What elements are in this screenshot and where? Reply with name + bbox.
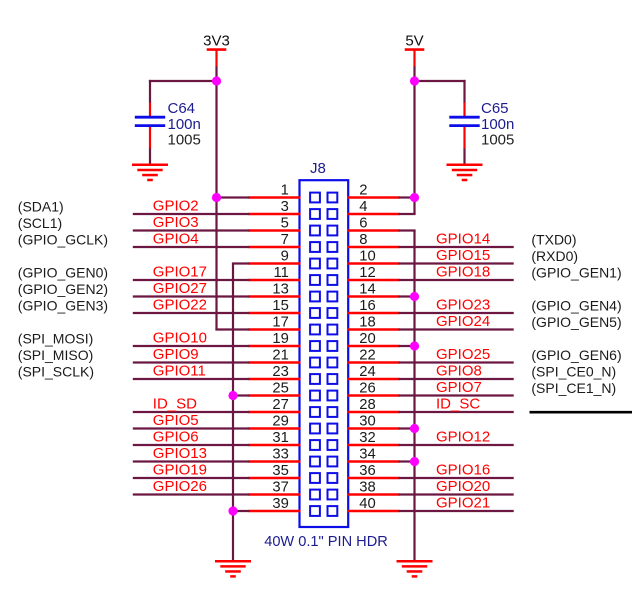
- pin 8 of J8: [348, 246, 400, 248]
- pin 5 of J8: [249, 229, 301, 231]
- wire rail to pin 14: [399, 295, 416, 297]
- wire 5V rail vertical to pin4 row: [413, 66, 415, 214]
- svg-text:29: 29: [272, 413, 288, 429]
- pin 28 of J8: [348, 411, 400, 413]
- svg-text:1005: 1005: [168, 132, 201, 149]
- wire net GPIO9 to pin 21: [133, 361, 250, 363]
- svg-text:(GPIO_GEN4): (GPIO_GEN4): [531, 297, 621, 313]
- svg-text:GPIO21: GPIO21: [436, 495, 490, 512]
- svg-text:(SPI_SCLK): (SPI_SCLK): [18, 363, 94, 379]
- junction left GND rail / pin 39: [228, 506, 237, 515]
- wire rail to pin 34: [399, 460, 416, 462]
- pin 32 of J8: [348, 444, 400, 446]
- junction right GND rail / pin 30: [410, 424, 419, 433]
- power symbol 5V: [405, 50, 425, 67]
- pin 10 of J8: [348, 262, 400, 264]
- wire 3V3 branch to C64: [149, 80, 217, 82]
- ground below C65: [447, 165, 483, 180]
- svg-text:20: 20: [359, 331, 375, 347]
- wire net GPIO10 to pin 19: [133, 345, 250, 347]
- power symbol 3V3: [207, 50, 227, 67]
- svg-text:11: 11: [274, 265, 289, 281]
- pin 33 of J8: [249, 460, 301, 462]
- svg-text:10: 10: [359, 248, 375, 264]
- svg-text:4: 4: [359, 199, 367, 215]
- wire 3V3 rail to pin 1: [215, 196, 249, 198]
- wire net GPIO15 to pin 10: [399, 262, 514, 264]
- wire net GPIO5 to pin 29: [133, 427, 250, 429]
- pin 16 of J8: [348, 312, 400, 314]
- svg-text:34: 34: [359, 446, 375, 462]
- svg-text:(GPIO_GEN3): (GPIO_GEN3): [18, 297, 108, 313]
- wire right GND rail (pins 6,14,20,30,34): [413, 231, 415, 561]
- wire net GPIO12 to pin 32: [399, 444, 514, 446]
- wire net GPIO13 to pin 33: [133, 460, 250, 462]
- wire net GPIO4 to pin 7: [133, 246, 250, 248]
- junction right GND rail / pin 14: [410, 292, 419, 301]
- svg-text:21: 21: [272, 347, 288, 363]
- wire C65 top lead: [463, 80, 465, 103]
- svg-text:23: 23: [272, 364, 288, 380]
- wire net GPIO16 to pin 36: [399, 477, 514, 479]
- wire net GPIO20 to pin 38: [399, 493, 514, 495]
- svg-text:GPIO7: GPIO7: [436, 379, 482, 396]
- svg-text:26: 26: [359, 380, 375, 396]
- wire net GPIO21 to pin 40: [399, 510, 514, 512]
- wire net GPIO25 to pin 22: [399, 361, 514, 363]
- svg-text:GPIO16: GPIO16: [436, 462, 490, 479]
- ground right of J8 bottom: [397, 561, 433, 576]
- pin 12 of J8: [348, 279, 400, 281]
- svg-text:24: 24: [359, 364, 375, 380]
- svg-text:GPIO11: GPIO11: [153, 363, 206, 380]
- svg-text:(GPIO_GCLK): (GPIO_GCLK): [18, 231, 108, 247]
- pin 24 of J8: [348, 378, 400, 380]
- pin 14 of J8: [348, 295, 400, 297]
- wire net GPIO19 to pin 35: [133, 477, 250, 479]
- svg-text:C65: C65: [481, 100, 509, 117]
- svg-text:15: 15: [272, 298, 288, 314]
- svg-text:GPIO27: GPIO27: [153, 280, 207, 297]
- svg-text:GPIO19: GPIO19: [153, 462, 207, 479]
- svg-text:(GPIO_GEN1): (GPIO_GEN1): [531, 264, 621, 280]
- svg-text:(RXD0): (RXD0): [531, 248, 578, 264]
- junction left GND rail / pin 25: [228, 391, 237, 400]
- pin 6 of J8: [348, 229, 400, 231]
- pin 39 of J8: [249, 510, 301, 512]
- junction 3V3 rail / pin 1: [212, 193, 221, 202]
- junction 5V rail / pin 2: [410, 193, 419, 202]
- svg-text:GPIO13: GPIO13: [153, 445, 207, 462]
- ground left of J8 bottom: [215, 561, 251, 576]
- svg-text:GPIO20: GPIO20: [436, 478, 490, 495]
- svg-text:GPIO12: GPIO12: [436, 429, 490, 446]
- wire rail to pin 6: [399, 229, 416, 231]
- capacitor C65: [449, 103, 479, 150]
- wire C64 bottom lead: [149, 149, 151, 165]
- svg-text:36: 36: [359, 463, 375, 479]
- J8 contact squares (2x20): [310, 193, 337, 516]
- junction right GND rail / pin 20: [410, 341, 419, 350]
- svg-text:(SPI_MOSI): (SPI_MOSI): [18, 330, 93, 346]
- svg-text:39: 39: [272, 496, 288, 512]
- wire net GPIO24 to pin 18: [399, 328, 514, 330]
- svg-text:(GPIO_GEN5): (GPIO_GEN5): [531, 314, 621, 330]
- pin 26 of J8: [348, 394, 400, 396]
- pin 34 of J8: [348, 460, 400, 462]
- pin 11 of J8: [249, 279, 301, 281]
- wire rail to pin 4: [399, 213, 416, 215]
- ground below C64: [132, 165, 168, 180]
- wire GND rail to pin 39: [232, 510, 250, 512]
- svg-text:6: 6: [359, 215, 367, 231]
- pin 35 of J8: [249, 477, 301, 479]
- svg-text:(SPI_CE1_N): (SPI_CE1_N): [531, 380, 616, 396]
- svg-text:3V3: 3V3: [203, 32, 230, 49]
- pin 7 of J8: [249, 246, 301, 248]
- wire net ID_SC to pin 28: [399, 411, 514, 413]
- svg-text:ID_SC: ID_SC: [436, 396, 480, 413]
- pin 38 of J8: [348, 493, 400, 495]
- svg-text:1: 1: [281, 182, 289, 198]
- svg-text:GPIO15: GPIO15: [436, 247, 490, 264]
- svg-text:33: 33: [272, 446, 288, 462]
- pin 18 of J8: [348, 328, 400, 330]
- wire net GPIO3 to pin 5: [133, 229, 250, 231]
- wire black net stub at sheet edge (row of pin 28): [530, 411, 632, 414]
- svg-text:2: 2: [359, 182, 367, 198]
- pin 31 of J8: [249, 444, 301, 446]
- svg-text:5: 5: [281, 215, 289, 231]
- wire GND rail to pin 25: [232, 394, 250, 396]
- wire net GPIO6 to pin 31: [133, 444, 250, 446]
- wire C64 top lead: [149, 80, 151, 103]
- wire GND rail to pin 9: [232, 262, 250, 264]
- svg-text:5V: 5V: [405, 32, 423, 49]
- svg-text:GPIO9: GPIO9: [153, 346, 199, 363]
- svg-text:8: 8: [359, 232, 367, 248]
- svg-text:(GPIO_GEN0): (GPIO_GEN0): [18, 264, 108, 280]
- pin 13 of J8: [249, 295, 301, 297]
- svg-text:GPIO3: GPIO3: [153, 214, 199, 231]
- wire net GPIO18 to pin 12: [399, 279, 514, 281]
- svg-text:17: 17: [272, 314, 288, 330]
- svg-text:GPIO24: GPIO24: [436, 313, 490, 330]
- wire C65 bottom lead: [463, 149, 465, 165]
- wire 3V3 rail vertical to pin17 row: [215, 66, 217, 329]
- svg-text:100n: 100n: [168, 116, 201, 133]
- svg-text:(SCL1): (SCL1): [18, 215, 62, 231]
- pin 19 of J8: [249, 345, 301, 347]
- wire net GPIO8 to pin 24: [399, 378, 514, 380]
- svg-text:40W 0.1" PIN HDR: 40W 0.1" PIN HDR: [264, 534, 388, 550]
- svg-text:9: 9: [281, 248, 289, 264]
- svg-text:1005: 1005: [481, 132, 514, 149]
- svg-text:GPIO23: GPIO23: [436, 297, 490, 314]
- wire net GPIO2 to pin 3: [133, 213, 250, 215]
- svg-text:GPIO2: GPIO2: [153, 198, 199, 215]
- wire net GPIO23 to pin 16: [399, 312, 514, 314]
- wire net GPIO26 to pin 37: [133, 493, 250, 495]
- svg-text:GPIO6: GPIO6: [153, 429, 199, 446]
- junction 3V3/C64 branch: [212, 76, 221, 85]
- svg-text:13: 13: [272, 281, 288, 297]
- pin 2 of J8: [348, 196, 400, 198]
- pin 22 of J8: [348, 361, 400, 363]
- wire net GPIO7 to pin 26: [399, 394, 514, 396]
- wire rail to pin 2: [399, 196, 416, 198]
- pin 21 of J8: [249, 361, 301, 363]
- svg-text:GPIO4: GPIO4: [153, 231, 199, 248]
- junction 5V/C65 branch: [410, 76, 419, 85]
- pin 20 of J8: [348, 345, 400, 347]
- svg-text:27: 27: [272, 397, 288, 413]
- svg-text:(SPI_CE0_N): (SPI_CE0_N): [531, 363, 616, 379]
- svg-text:31: 31: [272, 430, 288, 446]
- svg-text:GPIO14: GPIO14: [436, 231, 490, 248]
- svg-text:32: 32: [359, 430, 375, 446]
- svg-text:100n: 100n: [481, 116, 514, 133]
- svg-text:ID_SD: ID_SD: [153, 396, 197, 413]
- svg-text:7: 7: [281, 232, 289, 248]
- svg-text:GPIO18: GPIO18: [436, 264, 490, 281]
- svg-text:35: 35: [272, 463, 288, 479]
- svg-text:16: 16: [359, 298, 375, 314]
- svg-text:GPIO22: GPIO22: [153, 297, 207, 314]
- svg-text:3: 3: [281, 199, 289, 215]
- pin 27 of J8: [249, 411, 301, 413]
- capacitor C64: [135, 103, 165, 150]
- svg-text:(SDA1): (SDA1): [18, 198, 64, 214]
- svg-text:28: 28: [359, 397, 375, 413]
- pin 3 of J8: [249, 213, 301, 215]
- pin 1 of J8: [249, 196, 301, 198]
- pin 37 of J8: [249, 493, 301, 495]
- svg-text:(GPIO_GEN2): (GPIO_GEN2): [18, 281, 108, 297]
- wire net ID_SD to pin 27: [133, 411, 250, 413]
- svg-text:GPIO26: GPIO26: [153, 478, 207, 495]
- wire net GPIO17 to pin 11: [133, 279, 250, 281]
- svg-text:38: 38: [359, 479, 375, 495]
- pin 40 of J8: [348, 510, 400, 512]
- wire net GPIO14 to pin 8: [399, 246, 514, 248]
- pin 15 of J8: [249, 312, 301, 314]
- svg-text:14: 14: [359, 281, 375, 297]
- svg-text:C64: C64: [168, 100, 196, 117]
- svg-text:GPIO8: GPIO8: [436, 363, 482, 380]
- svg-text:18: 18: [359, 314, 375, 330]
- connector J8 body: [300, 180, 349, 527]
- wire net GPIO11 to pin 23: [133, 378, 250, 380]
- wire 5V branch to C65: [415, 80, 466, 82]
- svg-text:GPIO5: GPIO5: [153, 412, 199, 429]
- svg-text:GPIO10: GPIO10: [153, 330, 207, 347]
- wire net GPIO27 to pin 13: [133, 295, 250, 297]
- wire rail to pin 30: [399, 427, 416, 429]
- svg-text:37: 37: [272, 479, 288, 495]
- svg-text:(TXD0): (TXD0): [531, 231, 576, 247]
- pin 23 of J8: [249, 378, 301, 380]
- wire 3V3 rail to pin 17: [215, 328, 249, 330]
- pin 36 of J8: [348, 477, 400, 479]
- svg-text:19: 19: [272, 331, 288, 347]
- pin 4 of J8: [348, 213, 400, 215]
- pin 9 of J8: [249, 262, 301, 264]
- svg-text:22: 22: [359, 347, 375, 363]
- wire rail to pin 20: [399, 345, 416, 347]
- wire net GPIO22 to pin 15: [133, 312, 250, 314]
- svg-text:GPIO25: GPIO25: [436, 346, 490, 363]
- junction right GND rail / pin 34: [410, 457, 419, 466]
- svg-text:25: 25: [272, 380, 288, 396]
- pin 29 of J8: [249, 427, 301, 429]
- pin 17 of J8: [249, 328, 301, 330]
- svg-text:(SPI_MISO): (SPI_MISO): [18, 347, 93, 363]
- svg-text:(GPIO_GEN6): (GPIO_GEN6): [531, 347, 621, 363]
- svg-text:30: 30: [359, 413, 375, 429]
- svg-text:40: 40: [359, 496, 375, 512]
- pin 30 of J8: [348, 427, 400, 429]
- wire left GND rail (pins 9,25,39): [232, 264, 234, 561]
- svg-text:J8: J8: [310, 160, 326, 177]
- pin 25 of J8: [249, 394, 301, 396]
- svg-text:GPIO17: GPIO17: [153, 264, 207, 281]
- svg-text:12: 12: [359, 265, 375, 281]
